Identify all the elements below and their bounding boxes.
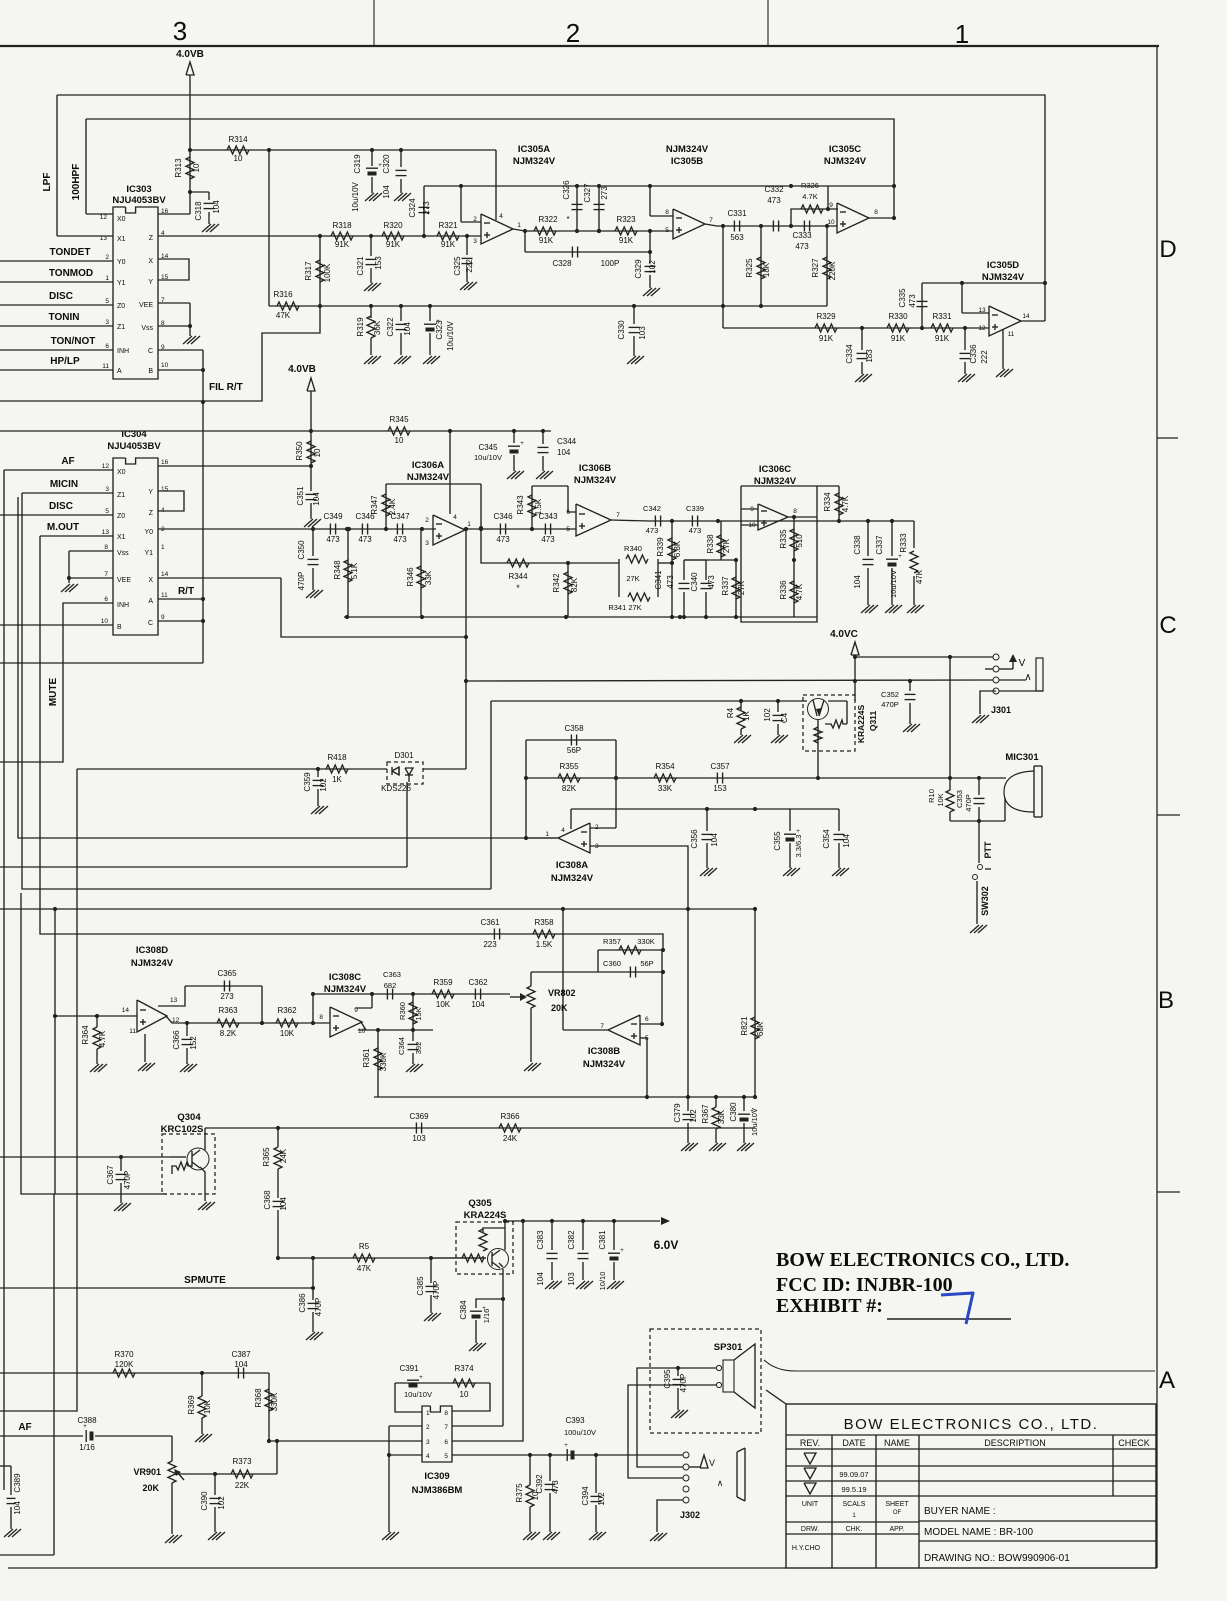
svg-text:IC303: IC303 xyxy=(126,184,151,195)
svg-text:C351: C351 xyxy=(296,486,305,506)
svg-text:C383: C383 xyxy=(536,1230,545,1250)
svg-text:OF: OF xyxy=(893,1510,902,1516)
svg-text:3: 3 xyxy=(173,16,187,46)
svg-text:20K: 20K xyxy=(551,1003,568,1013)
svg-text:C330: C330 xyxy=(617,320,626,340)
svg-text:C349: C349 xyxy=(323,512,343,521)
svg-text:C: C xyxy=(148,348,153,355)
svg-text:4.0VC: 4.0VC xyxy=(830,629,858,640)
svg-text:473: 473 xyxy=(767,196,781,205)
svg-text:104: 104 xyxy=(853,575,862,589)
svg-text:C392: C392 xyxy=(535,1474,544,1494)
svg-text:222: 222 xyxy=(465,259,474,273)
svg-text:C391: C391 xyxy=(399,1364,419,1373)
svg-text:6: 6 xyxy=(566,509,570,516)
svg-text:4.7K: 4.7K xyxy=(795,583,804,600)
svg-text:C337: C337 xyxy=(875,535,884,555)
svg-text:R357: R357 xyxy=(603,937,621,946)
svg-text:NJM324V: NJM324V xyxy=(982,272,1025,283)
svg-text:R323: R323 xyxy=(616,215,636,224)
svg-text:SHEET: SHEET xyxy=(885,1501,909,1508)
svg-text:DISC: DISC xyxy=(49,501,73,512)
svg-text:R/T: R/T xyxy=(178,586,194,597)
svg-text:C336: C336 xyxy=(969,344,978,364)
svg-text:C342: C342 xyxy=(643,504,661,513)
svg-text:4: 4 xyxy=(426,1453,430,1460)
svg-text:M.OUT: M.OUT xyxy=(47,522,79,533)
svg-text:12: 12 xyxy=(100,214,108,221)
svg-text:R343: R343 xyxy=(516,495,525,515)
svg-text:R348: R348 xyxy=(333,560,342,580)
svg-text:68K: 68K xyxy=(756,1021,765,1036)
svg-text:C323: C323 xyxy=(435,320,444,340)
svg-text:R362: R362 xyxy=(277,1006,297,1015)
svg-text:5: 5 xyxy=(444,1453,448,1460)
svg-text:682: 682 xyxy=(384,981,397,990)
svg-text:2: 2 xyxy=(426,1424,430,1431)
svg-text:56P: 56P xyxy=(567,746,581,755)
svg-text:J302: J302 xyxy=(680,1510,700,1520)
svg-text:2: 2 xyxy=(473,216,477,223)
svg-text:10u/10V: 10u/10V xyxy=(474,453,502,462)
svg-text:B: B xyxy=(117,624,122,631)
svg-text:C359: C359 xyxy=(303,772,312,792)
svg-text:9: 9 xyxy=(829,202,833,209)
svg-text:14: 14 xyxy=(122,1007,130,1014)
svg-text:IC308B: IC308B xyxy=(588,1046,620,1057)
svg-text:C382: C382 xyxy=(567,1230,576,1250)
svg-text:C338: C338 xyxy=(853,535,862,555)
svg-text:Q304: Q304 xyxy=(177,1112,201,1123)
svg-text:10K: 10K xyxy=(936,793,945,806)
svg-text:APP.: APP. xyxy=(889,1526,904,1533)
svg-text:14: 14 xyxy=(161,571,169,578)
svg-text:473: 473 xyxy=(707,575,716,589)
svg-text:10: 10 xyxy=(234,154,243,163)
svg-text:473: 473 xyxy=(795,242,809,251)
svg-text:104: 104 xyxy=(471,1000,485,1009)
svg-text:PTT: PTT xyxy=(983,841,993,859)
svg-text:B: B xyxy=(148,368,153,375)
svg-text:R321: R321 xyxy=(438,221,458,230)
svg-text:12: 12 xyxy=(978,325,986,332)
svg-text:R359: R359 xyxy=(433,978,453,987)
svg-text:473: 473 xyxy=(666,575,675,589)
svg-text:NJM324V: NJM324V xyxy=(666,144,709,155)
svg-text:4.0VB: 4.0VB xyxy=(176,49,204,60)
svg-text:18K: 18K xyxy=(762,262,771,277)
svg-text:C357: C357 xyxy=(710,762,730,771)
svg-text:R350: R350 xyxy=(295,441,304,461)
svg-text:C334: C334 xyxy=(845,344,854,364)
svg-text:R325: R325 xyxy=(745,258,754,278)
svg-text:330K: 330K xyxy=(637,937,655,946)
svg-text:C325: C325 xyxy=(453,256,462,276)
svg-text:10: 10 xyxy=(395,436,404,445)
svg-text:MIC301: MIC301 xyxy=(1005,752,1039,763)
svg-text:C321: C321 xyxy=(356,256,365,276)
svg-text:REV.: REV. xyxy=(800,1438,820,1448)
svg-text:223: 223 xyxy=(483,940,497,949)
svg-text:C367: C367 xyxy=(106,1165,115,1185)
svg-text:470P: 470P xyxy=(679,1374,688,1393)
svg-text:R4: R4 xyxy=(726,707,735,718)
svg-text:R361: R361 xyxy=(362,1048,371,1068)
svg-text:NAME: NAME xyxy=(884,1438,910,1448)
svg-text:SPMUTE: SPMUTE xyxy=(184,1275,226,1286)
svg-text:H.Y.CHO: H.Y.CHO xyxy=(792,1545,821,1552)
svg-text:3: 3 xyxy=(426,1439,430,1446)
svg-text:47K: 47K xyxy=(276,311,291,320)
svg-text:R369: R369 xyxy=(187,1395,196,1415)
svg-text:10/10: 10/10 xyxy=(598,1272,607,1291)
svg-text:8: 8 xyxy=(793,508,797,515)
svg-text:100K: 100K xyxy=(323,263,332,282)
svg-text:X: X xyxy=(148,577,153,584)
svg-text:100HPF: 100HPF xyxy=(71,164,82,201)
svg-text:4.7K: 4.7K xyxy=(98,1030,107,1047)
svg-text:MUTE: MUTE xyxy=(48,678,59,707)
svg-text:+: + xyxy=(898,554,902,560)
svg-text:6: 6 xyxy=(105,343,109,350)
svg-text:470P: 470P xyxy=(314,1298,323,1317)
svg-text:VEE: VEE xyxy=(139,302,153,309)
svg-text:KDS226: KDS226 xyxy=(381,784,411,793)
svg-text:IC305B: IC305B xyxy=(671,156,703,167)
svg-text:R313: R313 xyxy=(174,158,183,178)
svg-text:TONMOD: TONMOD xyxy=(49,268,93,279)
svg-text:TON/NOT: TON/NOT xyxy=(51,336,96,347)
svg-text:R342: R342 xyxy=(552,573,561,593)
svg-text:5: 5 xyxy=(105,298,109,305)
svg-text:R314: R314 xyxy=(228,135,248,144)
svg-text:104: 104 xyxy=(557,448,571,457)
svg-text:102: 102 xyxy=(648,260,657,274)
svg-text:392: 392 xyxy=(414,1042,423,1055)
svg-text:C319: C319 xyxy=(353,154,362,174)
svg-text:15: 15 xyxy=(161,486,169,493)
svg-text:6: 6 xyxy=(645,1016,649,1023)
svg-text:C379: C379 xyxy=(673,1103,682,1123)
svg-text:563: 563 xyxy=(730,233,744,242)
svg-text:VR802: VR802 xyxy=(548,988,576,998)
svg-text:C346: C346 xyxy=(355,512,375,521)
svg-text:AF: AF xyxy=(18,1422,31,1433)
svg-text:10K: 10K xyxy=(203,1399,212,1414)
svg-text:C332: C332 xyxy=(764,185,784,194)
svg-text:102: 102 xyxy=(319,778,328,792)
svg-text:R360: R360 xyxy=(398,1002,407,1020)
svg-text:473: 473 xyxy=(551,1480,560,1494)
svg-text:R326: R326 xyxy=(801,181,819,190)
svg-text:R316: R316 xyxy=(273,290,293,299)
svg-text:R319: R319 xyxy=(356,317,365,337)
svg-text:+: + xyxy=(564,1443,568,1449)
svg-text:R358: R358 xyxy=(534,918,554,927)
svg-text:C381: C381 xyxy=(598,1230,607,1250)
svg-text:6.0V: 6.0V xyxy=(654,1238,679,1252)
svg-text:6.8K: 6.8K xyxy=(673,540,682,557)
svg-text:R327: R327 xyxy=(811,258,820,278)
svg-text:R370: R370 xyxy=(114,1350,134,1359)
svg-text:8.2K: 8.2K xyxy=(220,1029,237,1038)
svg-text:3: 3 xyxy=(425,540,429,547)
svg-text:C393: C393 xyxy=(565,1416,585,1425)
svg-text:X1: X1 xyxy=(117,236,126,243)
svg-text:Q311: Q311 xyxy=(868,711,878,732)
svg-text:12: 12 xyxy=(102,463,110,470)
svg-text:X: X xyxy=(148,258,153,265)
svg-text:220K: 220K xyxy=(828,261,837,280)
svg-text:R335: R335 xyxy=(779,529,788,549)
svg-text:1: 1 xyxy=(105,275,109,282)
svg-text:1.5K: 1.5K xyxy=(536,940,553,949)
svg-text:9: 9 xyxy=(161,614,165,621)
svg-text:2: 2 xyxy=(566,18,580,48)
svg-text:C360: C360 xyxy=(603,959,621,968)
svg-text:Vss: Vss xyxy=(117,550,129,557)
svg-text:27K: 27K xyxy=(626,574,639,583)
svg-text:91K: 91K xyxy=(935,334,950,343)
svg-text:102: 102 xyxy=(763,708,772,722)
svg-text:C324: C324 xyxy=(408,198,417,218)
svg-text:1: 1 xyxy=(545,831,549,838)
svg-text:C363: C363 xyxy=(383,970,401,979)
svg-text:470P: 470P xyxy=(964,794,973,812)
svg-text:10: 10 xyxy=(101,618,109,625)
svg-text:104: 104 xyxy=(710,833,719,847)
svg-text:11: 11 xyxy=(102,363,109,370)
svg-text:47K: 47K xyxy=(357,1264,372,1273)
svg-text:C350: C350 xyxy=(297,540,306,560)
svg-text:22K: 22K xyxy=(235,1481,250,1490)
svg-text:1K: 1K xyxy=(742,710,751,720)
svg-text:VR901: VR901 xyxy=(133,1467,161,1477)
svg-text:C333: C333 xyxy=(792,231,812,240)
svg-text:R331: R331 xyxy=(932,312,952,321)
svg-text:273: 273 xyxy=(422,201,431,215)
svg-text:103: 103 xyxy=(567,1272,576,1286)
svg-text:C352: C352 xyxy=(881,690,899,699)
svg-text:10u/10V: 10u/10V xyxy=(351,181,360,211)
svg-text:104: 104 xyxy=(382,185,391,199)
svg-text:13: 13 xyxy=(978,307,986,314)
svg-text:C4: C4 xyxy=(780,712,789,723)
svg-text:470P: 470P xyxy=(881,700,899,709)
svg-text:33K: 33K xyxy=(658,784,673,793)
svg-text:C353: C353 xyxy=(955,790,964,808)
svg-text:+: + xyxy=(520,441,524,447)
svg-text:*: * xyxy=(566,215,569,224)
svg-text:R373: R373 xyxy=(232,1457,252,1466)
svg-text:BOW ELECTRONICS CO., LTD.: BOW ELECTRONICS CO., LTD. xyxy=(776,1249,1069,1271)
svg-text:VEE: VEE xyxy=(117,577,131,584)
svg-text:2: 2 xyxy=(105,254,109,261)
svg-text:C335: C335 xyxy=(898,288,907,308)
svg-text:470P: 470P xyxy=(432,1281,441,1300)
svg-text:10u/10V: 10u/10V xyxy=(404,1390,432,1399)
svg-text:C389: C389 xyxy=(13,1473,22,1493)
svg-text:R338: R338 xyxy=(706,534,715,554)
svg-text:C345: C345 xyxy=(478,443,498,452)
svg-text:J301: J301 xyxy=(991,705,1011,715)
svg-text:CHECK: CHECK xyxy=(1118,1438,1150,1448)
svg-text:20K: 20K xyxy=(142,1483,159,1493)
svg-text:R355: R355 xyxy=(559,762,579,771)
svg-text:C387: C387 xyxy=(231,1350,251,1359)
svg-text:IC305C: IC305C xyxy=(829,144,861,155)
svg-text:33K: 33K xyxy=(424,570,433,585)
svg-text:91K: 91K xyxy=(386,240,401,249)
svg-text:100P: 100P xyxy=(601,259,620,268)
svg-text:Y: Y xyxy=(148,279,153,286)
svg-text:102: 102 xyxy=(217,1496,226,1510)
svg-text:10u/10V: 10u/10V xyxy=(889,570,898,598)
svg-text:UNIT: UNIT xyxy=(802,1501,819,1508)
svg-text:473: 473 xyxy=(689,526,702,535)
svg-text:473: 473 xyxy=(393,535,407,544)
svg-text:153: 153 xyxy=(713,784,727,793)
svg-text:10: 10 xyxy=(827,219,835,226)
svg-text:C362: C362 xyxy=(468,978,488,987)
svg-text:473: 473 xyxy=(358,535,372,544)
svg-text:R317: R317 xyxy=(304,261,313,281)
svg-text:1/16: 1/16 xyxy=(482,1309,491,1324)
svg-text:C368: C368 xyxy=(263,1190,272,1210)
svg-text:MICIN: MICIN xyxy=(50,479,78,490)
svg-text:470P: 470P xyxy=(123,1171,132,1190)
svg-text:Y1: Y1 xyxy=(144,550,153,557)
svg-text:8: 8 xyxy=(444,1410,448,1417)
svg-text:R330: R330 xyxy=(888,312,908,321)
svg-text:NJM324V: NJM324V xyxy=(513,156,556,167)
svg-text:+: + xyxy=(796,829,800,835)
svg-text:C: C xyxy=(148,620,153,627)
svg-text:CHK.: CHK. xyxy=(846,1526,863,1533)
svg-text:R363: R363 xyxy=(218,1006,238,1015)
svg-text:473: 473 xyxy=(908,294,917,308)
svg-text:Z0: Z0 xyxy=(117,513,125,520)
svg-text:C395: C395 xyxy=(663,1369,672,1389)
svg-text:SP301: SP301 xyxy=(714,1342,743,1353)
svg-text:11: 11 xyxy=(1008,331,1015,338)
svg-text:473: 473 xyxy=(541,535,555,544)
svg-text:C327: C327 xyxy=(583,183,592,203)
svg-text:IC306B: IC306B xyxy=(579,463,611,474)
svg-text:R318: R318 xyxy=(332,221,352,230)
svg-text:2: 2 xyxy=(425,517,429,524)
svg-text:330K: 330K xyxy=(270,1392,279,1411)
svg-text:R10: R10 xyxy=(927,789,936,803)
svg-text:C364: C364 xyxy=(397,1037,406,1055)
svg-text:56P: 56P xyxy=(640,959,653,968)
svg-text:HP/LP: HP/LP xyxy=(50,356,80,367)
svg-text:C347: C347 xyxy=(390,512,410,521)
svg-text:4.7K: 4.7K xyxy=(802,192,817,201)
svg-text:91K: 91K xyxy=(891,334,906,343)
svg-text:7: 7 xyxy=(709,217,713,224)
svg-text:C361: C361 xyxy=(480,918,500,927)
svg-text:IC308A: IC308A xyxy=(556,860,588,871)
svg-text:5: 5 xyxy=(105,508,109,515)
svg-text:D301: D301 xyxy=(394,751,414,760)
svg-text:13: 13 xyxy=(102,529,110,536)
svg-text:DATE: DATE xyxy=(842,1438,865,1448)
svg-text:104: 104 xyxy=(234,1360,248,1369)
svg-text:C358: C358 xyxy=(564,724,584,733)
svg-text:104: 104 xyxy=(279,1197,288,1211)
svg-text:NJU4053BV: NJU4053BV xyxy=(107,441,161,452)
svg-text:Z0: Z0 xyxy=(117,303,125,310)
svg-text:C322: C322 xyxy=(386,317,395,337)
svg-text:NJM324V: NJM324V xyxy=(574,475,617,486)
svg-text:R340: R340 xyxy=(624,544,642,553)
svg-text:IC305A: IC305A xyxy=(518,144,550,155)
svg-text:C340: C340 xyxy=(690,572,699,592)
svg-text:INH: INH xyxy=(117,602,129,609)
svg-text:11: 11 xyxy=(129,1028,136,1035)
svg-text:10K: 10K xyxy=(280,1029,295,1038)
svg-text:91K: 91K xyxy=(539,236,554,245)
svg-text:C: C xyxy=(1159,612,1176,639)
svg-text:NJM324V: NJM324V xyxy=(824,156,867,167)
svg-text:R366: R366 xyxy=(500,1112,520,1121)
svg-text:R341 27K: R341 27K xyxy=(608,603,641,612)
svg-text:14: 14 xyxy=(1022,313,1030,320)
svg-text:R344: R344 xyxy=(508,572,528,581)
svg-text:+: + xyxy=(620,1248,624,1254)
svg-text:13: 13 xyxy=(170,997,178,1004)
svg-text:X1: X1 xyxy=(117,534,126,541)
svg-text:8: 8 xyxy=(319,1014,323,1021)
svg-text:C365: C365 xyxy=(217,969,237,978)
svg-text:91K: 91K xyxy=(819,334,834,343)
svg-text:Y0: Y0 xyxy=(117,259,126,266)
svg-text:EXHIBIT #:: EXHIBIT #: xyxy=(776,1295,883,1317)
svg-text:C356: C356 xyxy=(690,829,699,849)
svg-text:222: 222 xyxy=(980,350,989,364)
svg-text:1.5K: 1.5K xyxy=(534,498,543,515)
svg-text:8: 8 xyxy=(104,544,108,551)
svg-text:R322: R322 xyxy=(538,215,558,224)
svg-text:C328: C328 xyxy=(552,259,572,268)
svg-text:1K: 1K xyxy=(332,775,342,784)
svg-text:470P: 470P xyxy=(297,572,306,591)
svg-text:4.0VB: 4.0VB xyxy=(288,364,316,375)
svg-text:SCALS: SCALS xyxy=(843,1501,866,1508)
svg-text:R5: R5 xyxy=(359,1242,370,1251)
svg-text:7: 7 xyxy=(104,571,108,578)
svg-text:16: 16 xyxy=(161,459,169,466)
svg-text:10K: 10K xyxy=(436,1000,451,1009)
svg-text:Z: Z xyxy=(149,510,154,517)
svg-text:Y1: Y1 xyxy=(117,280,126,287)
svg-text:C354: C354 xyxy=(822,829,831,849)
svg-text:Y0: Y0 xyxy=(144,529,153,536)
svg-text:AF: AF xyxy=(61,456,74,467)
svg-text:C366: C366 xyxy=(172,1030,181,1050)
svg-text:R821: R821 xyxy=(740,1016,749,1036)
svg-text:102: 102 xyxy=(597,1492,606,1506)
svg-text:R367: R367 xyxy=(701,1104,710,1124)
svg-text:R345: R345 xyxy=(389,415,409,424)
svg-text:NJM324V: NJM324V xyxy=(551,873,594,884)
svg-text:A: A xyxy=(1159,1367,1175,1394)
svg-text:473: 473 xyxy=(646,526,659,535)
svg-text:5: 5 xyxy=(566,526,570,533)
svg-text:C339: C339 xyxy=(686,504,704,513)
svg-text:A: A xyxy=(148,598,153,605)
